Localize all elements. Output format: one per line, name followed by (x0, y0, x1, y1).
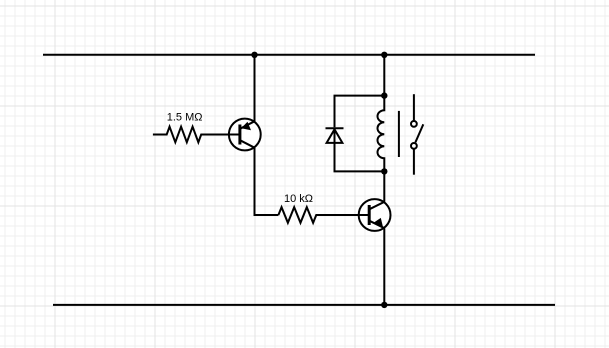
wire: relay bottom node down to Q2 collector (383, 171, 385, 201)
wire: top rail down to relay top node (383, 55, 385, 96)
label: R2 value 10 kΩ (284, 193, 313, 205)
node: junction dot on top rail at relay branch (381, 52, 387, 58)
wire: relay top node left and down to diode cathode (335, 96, 385, 128)
wire: Q1 collector down and right to R2 (255, 148, 279, 215)
wire: relay switch top lead (413, 94, 415, 120)
relay switch upper contact (411, 121, 417, 127)
transistor Q1 PNP (228, 119, 261, 151)
node: junction dot at relay coil bottom (381, 168, 387, 174)
relay coil K1 (inductor, four arcs) (377, 96, 384, 172)
svg-text:1.5 MΩ: 1.5 MΩ (167, 112, 203, 124)
label: R1 value 1.5 MΩ (167, 112, 203, 124)
node: junction dot at relay coil top (381, 92, 387, 98)
wire: bottom rail (53, 304, 555, 306)
resistor R2 10 kilohm with lead to Q2 base (278, 207, 369, 223)
relay switch lower contact (411, 143, 417, 149)
relay core bar (398, 111, 400, 157)
resistor R1 1.5 megohm with leads (153, 127, 240, 143)
relay switch blade (415, 124, 423, 142)
node: junction dot on top rail at Q1 branch (251, 52, 257, 58)
transistor Q2 NPN (357, 199, 390, 231)
wire: top rail down to Q1 emitter (254, 55, 256, 122)
node: junction dot on bottom rail (381, 302, 387, 308)
wire: top positive supply rail (43, 54, 535, 56)
wire: diode anode down and right to relay bottom node (335, 143, 385, 172)
svg-text:10 kΩ: 10 kΩ (284, 193, 313, 205)
wire: relay switch bottom lead (413, 150, 415, 175)
wire: Q2 emitter down to bottom rail (383, 228, 385, 305)
diode D1 flyback across relay coil (326, 128, 344, 143)
